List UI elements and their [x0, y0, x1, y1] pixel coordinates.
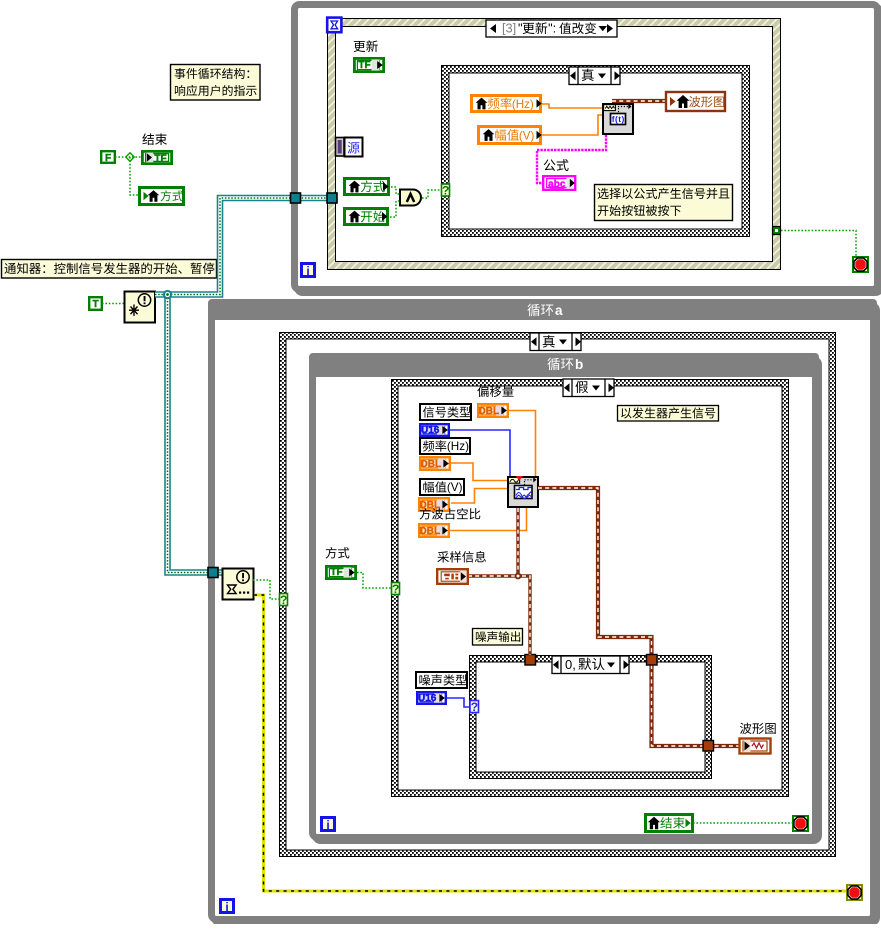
- indicator 波形图 (graph): [740, 739, 771, 754]
- svg-text:f(t): f(t): [612, 114, 625, 124]
- wire F to TF local: [115, 156, 141, 158]
- wire wait to 真?: [253, 580, 279, 599]
- svg-text:0,: 0,: [565, 657, 576, 672]
- case structure (真) border: [441, 65, 750, 237]
- sub-VI f(t) formula waveform: [603, 104, 633, 134]
- svg-text:T: T: [92, 299, 98, 310]
- comment 通知器: [2, 260, 217, 279]
- case selector 真: [569, 67, 620, 85]
- wait on notification VI: [223, 569, 254, 600]
- while loop (top, event loop): [298, 8, 881, 293]
- tunnel brown mid: [647, 655, 658, 666]
- label 噪声类型 box: [416, 672, 467, 688]
- svg-text:U16: U16: [418, 693, 437, 704]
- case selector terminal ?: [442, 184, 450, 196]
- wire U16 to case ?: [447, 698, 470, 707]
- svg-text:TF: TF: [330, 567, 342, 578]
- terminal 幅值 DBL: [419, 498, 449, 511]
- svg-text:?: ?: [442, 184, 449, 198]
- event selector label [3] 更新:值改变: [486, 20, 617, 37]
- local variable 结束 TF: [142, 151, 171, 163]
- local variable 波形图: [666, 92, 725, 111]
- case structure 0,默认: [469, 655, 712, 779]
- junction sampling: [515, 573, 522, 580]
- wire 方式 to 假?: [357, 573, 391, 589]
- cluster terminal 采样信息: [437, 569, 468, 584]
- boolean terminal 方式 (loop b): [326, 566, 355, 578]
- terminal 信号类型 U16: [420, 424, 449, 436]
- comment 选择以公式产生信号并且开始按钮被按下: [595, 185, 733, 221]
- loop b condition terminal: [793, 816, 808, 831]
- label 采样信息: [437, 551, 449, 562]
- terminal 频率 DBL: [420, 457, 450, 470]
- control 结束: [646, 815, 693, 832]
- wire junction down to 方式 local: [130, 157, 138, 195]
- event tunnel (bool out): [773, 227, 781, 235]
- wire 频率 to f(t): [542, 104, 602, 108]
- tunnel on event border: [327, 193, 337, 203]
- wire waveform to 波形图: [612, 99, 666, 103]
- svg-text:i: i: [326, 818, 329, 832]
- label 幅值(V) box: [420, 479, 464, 495]
- svg-text:TF: TF: [154, 153, 166, 164]
- svg-text:b: b: [575, 357, 583, 372]
- label 频率(Hz) box: [420, 438, 470, 454]
- control 频率(Hz): [472, 96, 541, 112]
- case selector 假: [563, 379, 614, 397]
- svg-text:DBL: DBL: [420, 526, 441, 537]
- string control 公式 abc: [543, 176, 575, 190]
- loop a condition terminal: [847, 885, 862, 900]
- control 方式: [345, 179, 389, 195]
- boolean terminal 更新 TF: [354, 58, 383, 71]
- label 更新: [354, 41, 366, 52]
- svg-text:[3]: [3]: [502, 21, 516, 36]
- wire 方波占空比 to VI: [450, 508, 527, 531]
- wire T to notifier VI: [102, 303, 124, 305]
- tunnel brown left: [525, 655, 536, 666]
- terminal 方波占空比 DBL: [419, 524, 449, 537]
- svg-text:i: i: [306, 264, 309, 278]
- wire U16 to VI: [450, 430, 510, 476]
- svg-text:(Hz): (Hz): [447, 440, 469, 453]
- svg-text:?: ?: [471, 700, 478, 714]
- comment 事件循环结构: [171, 65, 261, 101]
- tunnel brown right: [703, 741, 714, 752]
- svg-text:(V): (V): [519, 130, 535, 143]
- svg-text:(Hz): (Hz): [512, 98, 534, 111]
- svg-text:(V): (V): [447, 481, 463, 494]
- case selector 0,默认: [552, 656, 629, 674]
- label 偏移量: [477, 386, 488, 397]
- loop b title 循环b: [547, 358, 559, 371]
- wire 开始 to AND: [390, 201, 400, 217]
- terminal 偏移量 DBL: [478, 404, 508, 417]
- control 幅值(V): [479, 127, 541, 144]
- svg-text:U16: U16: [421, 425, 440, 436]
- local variable 方式: [140, 188, 184, 205]
- case structure 假: [391, 379, 789, 797]
- i terminal (top loop): [302, 264, 315, 277]
- wire VI out to case tunnel: [538, 488, 652, 655]
- i terminal loop b: [322, 818, 335, 831]
- label 方波占空比: [420, 508, 431, 520]
- notifier wire up to event loop: [155, 198, 327, 295]
- event structure border: [327, 18, 781, 270]
- case selector 真 (bottom): [530, 333, 581, 351]
- while loop a: [215, 306, 877, 923]
- svg-text:": ": [518, 21, 523, 36]
- label 公式: [544, 159, 556, 171]
- wire 方式 to AND: [391, 187, 400, 194]
- wire 偏移量 to VI: [508, 411, 536, 477]
- case selector terminal ? (假): [392, 583, 400, 595]
- wire junction (notifier): [163, 290, 172, 299]
- obtain notifier VI: [125, 292, 156, 323]
- wire 结束 to stop: [693, 822, 792, 824]
- tunnel on top loop border: [291, 193, 301, 203]
- wire 幅值 to f(t): [542, 115, 602, 135]
- wire inside case to 波形图: [652, 665, 740, 746]
- label 结束: [142, 133, 154, 145]
- wire 采样信息 to junction: [468, 574, 518, 577]
- label 信号类型 box: [420, 404, 471, 420]
- constant F: [101, 151, 115, 163]
- svg-text:TF: TF: [358, 60, 370, 71]
- terminal 噪声类型 U16: [417, 692, 446, 704]
- case structure 真 (bottom): [279, 332, 836, 857]
- wire 幅值 to VI: [451, 489, 507, 504]
- comment 噪声输出: [473, 629, 523, 646]
- svg-text:":: ":: [548, 22, 556, 36]
- svg-text:DBL: DBL: [479, 406, 500, 417]
- case selector terminal ? (真 bottom): [280, 594, 288, 606]
- wire sampling info: [518, 508, 530, 655]
- AND gate: [400, 190, 421, 206]
- svg-text:a: a: [555, 303, 563, 318]
- svg-text:F: F: [105, 153, 111, 164]
- label 波形图 (bottom): [740, 723, 752, 734]
- svg-text:DBL: DBL: [420, 500, 441, 511]
- constant T: [89, 297, 102, 310]
- tunnel on loop a border: [208, 568, 218, 578]
- notifier wire down to wait VI: [168, 295, 223, 573]
- label 方式 (loop b): [326, 547, 337, 559]
- svg-text:?: ?: [392, 582, 399, 596]
- wire junction dot: [126, 153, 134, 161]
- error wire: [254, 595, 846, 891]
- loop a title 循环a: [527, 304, 539, 317]
- wire string 公式 to f(t): [537, 135, 606, 183]
- svg-text:?: ?: [280, 593, 287, 607]
- case selector terminal ? (0,默认): [470, 701, 479, 713]
- basic function generator VI: [508, 477, 538, 507]
- while loop b: [316, 360, 819, 841]
- i terminal loop a: [221, 900, 234, 913]
- svg-text:i: i: [225, 900, 228, 914]
- wire AND to ?: [422, 190, 441, 198]
- control 开始: [345, 209, 388, 225]
- wire tunnel to stop: [781, 231, 856, 257]
- wire 频率 to VI: [451, 463, 507, 481]
- loop condition terminal (top): [853, 257, 868, 272]
- svg-text:DBL: DBL: [421, 459, 442, 470]
- event timeout terminal: [327, 18, 341, 33]
- comment 以发生器产生信号: [618, 406, 719, 422]
- event data node 源: [336, 138, 345, 157]
